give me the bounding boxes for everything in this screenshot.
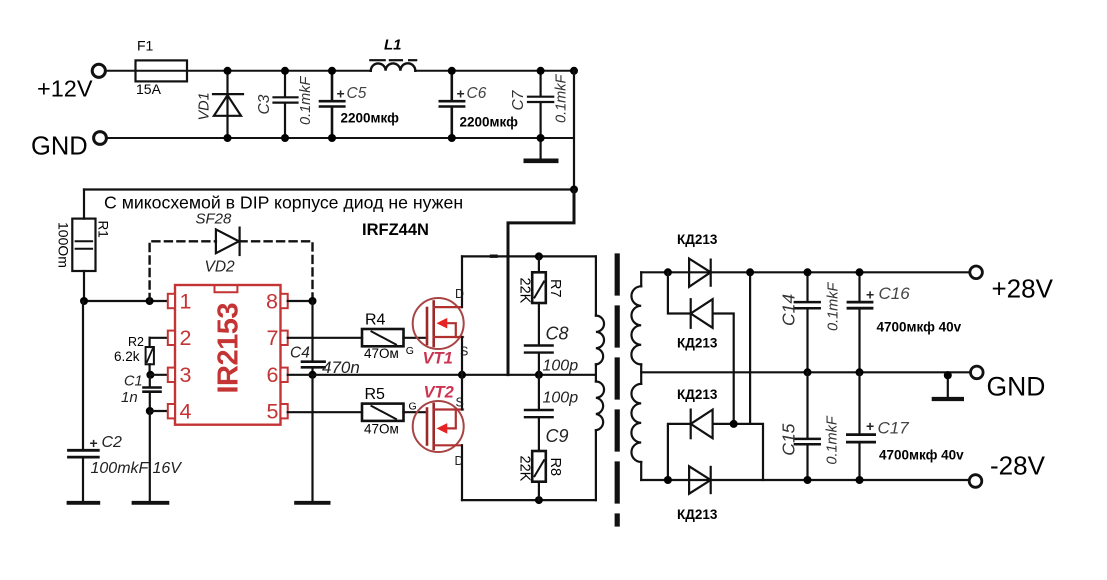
svg-text:R8: R8 xyxy=(547,458,563,477)
svg-text:C6: C6 xyxy=(467,85,487,102)
wire VT1 drain up xyxy=(461,256,463,307)
wire pin2 row xyxy=(150,337,168,339)
ground C4 line xyxy=(311,375,313,502)
svg-text:-28V: -28V xyxy=(990,451,1046,481)
svg-text:4700мкф 40v: 4700мкф 40v xyxy=(879,448,964,463)
pin 6 xyxy=(281,368,288,382)
svg-text:100Om: 100Om xyxy=(56,222,72,268)
wire pin6 midline xyxy=(288,374,596,376)
pin 1 xyxy=(168,294,175,308)
svg-text:R5: R5 xyxy=(365,386,386,403)
svg-text:+: + xyxy=(866,418,874,434)
svg-text:100p: 100p xyxy=(543,390,579,407)
svg-text:2200мкф: 2200мкф xyxy=(460,115,519,130)
svg-text:VT2: VT2 xyxy=(424,383,454,401)
svg-text:C7: C7 xyxy=(510,89,527,110)
svg-text:+12V: +12V xyxy=(37,76,93,102)
terminal +12V xyxy=(92,64,105,77)
diode VD2 SF28 xyxy=(216,228,240,255)
svg-text:47Ом: 47Ом xyxy=(364,421,399,436)
svg-text:1n: 1n xyxy=(121,389,138,406)
wire drain rail top xyxy=(492,255,497,258)
svg-text:4700мкф 40v: 4700мкф 40v xyxy=(877,320,962,335)
svg-text:G: G xyxy=(409,401,417,413)
svg-text:+: + xyxy=(457,86,465,102)
svg-text:0.1mkF: 0.1mkF xyxy=(825,415,841,464)
svg-text:100mkF 16V: 100mkF 16V xyxy=(91,460,183,477)
pin 3 xyxy=(168,368,175,382)
svg-text:GND: GND xyxy=(31,133,88,161)
svg-text:КД213: КД213 xyxy=(677,336,718,351)
transistor Q1 VT1 IRFZ44N xyxy=(413,298,464,349)
wire D2 anode down xyxy=(713,314,734,424)
svg-text:C4: C4 xyxy=(290,345,310,362)
inductor L1 xyxy=(371,63,415,70)
terminal +28V xyxy=(970,266,983,279)
resistor R4 47Om xyxy=(362,329,404,346)
resistor R5 47Om xyxy=(362,404,404,421)
wire pin4 row xyxy=(146,407,154,415)
svg-text:IR2153: IR2153 xyxy=(213,303,245,394)
svg-text:7: 7 xyxy=(267,326,279,350)
wire secondary bottom rail xyxy=(641,479,967,481)
svg-text:КД213: КД213 xyxy=(677,232,718,247)
svg-text:L1: L1 xyxy=(384,37,402,54)
pin 7 xyxy=(281,331,288,345)
capacitor C5 electrolytic xyxy=(320,71,344,138)
svg-text:КД213: КД213 xyxy=(677,387,718,402)
svg-text:22K: 22K xyxy=(517,456,533,482)
transformer T1 secondary winding xyxy=(631,272,641,480)
svg-text:+28V: +28V xyxy=(992,274,1054,304)
wire top +12V rail xyxy=(106,70,371,72)
capacitor C6 electrolytic xyxy=(440,71,464,138)
pin 4 xyxy=(168,404,175,418)
terminal GND input xyxy=(94,132,107,145)
pin 5 xyxy=(281,404,288,418)
svg-text:C9: C9 xyxy=(546,426,569,446)
svg-text:F1: F1 xyxy=(137,38,154,54)
svg-text:5: 5 xyxy=(267,400,279,424)
terminal GND output xyxy=(971,366,984,379)
dashed link VD2 left xyxy=(150,241,313,301)
svg-text:22K: 22K xyxy=(517,278,533,304)
svg-text:100p: 100p xyxy=(543,357,579,374)
transistor Q2 VT2 IRFZ44N xyxy=(413,401,464,452)
svg-text:C8: C8 xyxy=(546,324,569,344)
svg-text:0.1mkF: 0.1mkF xyxy=(826,282,842,331)
capacitor C17 4700mkf 40v xyxy=(858,372,860,433)
junction dots input section xyxy=(224,67,232,75)
diode D4 KD213 bottom xyxy=(664,476,672,484)
capacitor C16 4700mkf 40v xyxy=(858,272,860,301)
svg-text:47Ом: 47Ом xyxy=(364,346,399,361)
wire D3 anode to corner xyxy=(713,424,763,480)
resistor R7 22K xyxy=(538,256,540,272)
capacitor C14 0.1mkF xyxy=(806,272,808,301)
svg-text:C1: C1 xyxy=(124,374,143,390)
wire +12V drop to feed line xyxy=(573,71,575,190)
wire pin3 row xyxy=(150,374,168,376)
svg-text:3: 3 xyxy=(180,363,192,387)
svg-text:2: 2 xyxy=(180,326,192,350)
capacitor C2 electrolytic 100mkF 16V xyxy=(82,301,84,449)
svg-text:C15: C15 xyxy=(778,423,798,455)
wire pin8 xyxy=(288,300,313,302)
wire VT2 source up to midline xyxy=(461,375,463,410)
resistor R8 22K xyxy=(532,451,546,482)
svg-text:6: 6 xyxy=(267,363,279,387)
wire VT1 source down to midline xyxy=(461,337,463,375)
svg-text:R7: R7 xyxy=(547,279,563,298)
svg-text:6.2k: 6.2k xyxy=(114,349,140,364)
wire thick Z to center tap xyxy=(508,190,574,375)
capacitor C4 470n xyxy=(311,301,313,360)
svg-text:C17: C17 xyxy=(878,418,910,437)
svg-text:GND: GND xyxy=(987,371,1046,401)
diode D1 KD213 top xyxy=(689,259,711,287)
wire R4 to VT1 gate xyxy=(404,337,428,339)
svg-text:C2: C2 xyxy=(102,434,123,451)
ground symbol under C7 xyxy=(539,138,541,159)
wire pin7 to R4 xyxy=(288,337,362,339)
wire GND rail xyxy=(107,137,575,139)
svg-text:8: 8 xyxy=(266,289,278,313)
svg-text:R1: R1 xyxy=(96,221,111,238)
capacitor C1 1n xyxy=(146,371,154,379)
svg-text:R2: R2 xyxy=(128,335,144,349)
ground symbol at GND output xyxy=(947,372,949,397)
svg-text:С микосхемой в DIP корпусе дио: С микосхемой в DIP корпусе диод не нужен xyxy=(104,193,463,213)
wire secondary top rail xyxy=(641,271,968,273)
transformer T1 primary winding xyxy=(596,256,604,500)
terminal -28V xyxy=(969,475,982,488)
svg-text:2200мкф: 2200мкф xyxy=(341,111,400,126)
svg-text:+: + xyxy=(866,286,874,302)
resistor R1 xyxy=(83,190,85,219)
svg-text:15A: 15A xyxy=(136,81,162,97)
ground pin4 line xyxy=(149,411,151,502)
svg-text:C3: C3 xyxy=(256,94,273,114)
svg-text:1: 1 xyxy=(180,289,192,313)
wire bottom rail xyxy=(462,499,596,501)
diode D2 KD213 xyxy=(668,272,691,313)
wire top rail drop xyxy=(749,272,751,424)
capacitor C8 100p xyxy=(538,303,540,344)
IC U1 IR2153 body xyxy=(175,285,281,425)
wire pin1 row xyxy=(84,300,168,302)
wire R5 to VT2 gate xyxy=(404,411,428,413)
svg-text:VD2: VD2 xyxy=(205,259,236,276)
svg-text:VT1: VT1 xyxy=(423,349,453,367)
wire VT2 drain down xyxy=(461,445,463,500)
capacitor C15 0.1mkF xyxy=(806,372,808,437)
svg-text:+: + xyxy=(337,86,345,102)
wire secondary center tap GND rail xyxy=(641,371,969,373)
IC notch xyxy=(215,285,238,292)
svg-text:G: G xyxy=(406,345,414,357)
resistor R2 6.2k xyxy=(149,338,151,347)
svg-text:VD1: VD1 xyxy=(197,92,213,120)
wire feed line to IC section xyxy=(84,188,574,190)
svg-text:+: + xyxy=(90,435,98,451)
diode D3 KD213 xyxy=(668,424,691,480)
svg-text:КД213: КД213 xyxy=(677,507,718,522)
svg-text:4: 4 xyxy=(180,400,192,424)
svg-text:0.1mkF: 0.1mkF xyxy=(554,74,570,123)
svg-text:R4: R4 xyxy=(365,312,386,329)
pin 2 xyxy=(168,331,175,345)
capacitor C3 xyxy=(274,71,298,138)
diode VD1 xyxy=(213,71,243,138)
pin 8 xyxy=(281,294,288,308)
fuse F1 15A xyxy=(136,60,188,81)
wire pin5 to R5 xyxy=(288,411,362,413)
capacitor C7 xyxy=(528,71,553,138)
svg-text:SF28: SF28 xyxy=(196,211,233,228)
svg-text:C16: C16 xyxy=(879,284,911,303)
transformer core xyxy=(615,256,620,524)
svg-text:C14: C14 xyxy=(779,294,799,326)
svg-text:0.1mkF: 0.1mkF xyxy=(298,76,314,125)
svg-text:IRFZ44N: IRFZ44N xyxy=(362,221,429,239)
svg-text:C5: C5 xyxy=(347,85,367,102)
